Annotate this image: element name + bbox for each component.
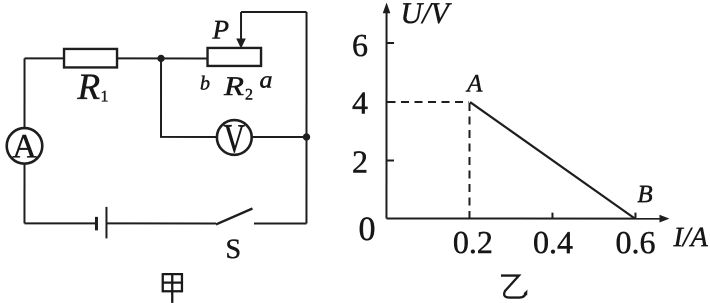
- switch contact wire: [254, 222, 307, 224]
- voltmeter V: [217, 120, 252, 155]
- svg-text:B: B: [637, 181, 652, 208]
- battery short plate: [95, 217, 98, 231]
- svg-text:S: S: [225, 234, 241, 265]
- y-axis U: [385, 11, 387, 218]
- svg-text:2: 2: [352, 143, 368, 179]
- resistor R1: [64, 49, 117, 68]
- wire voltmeter to right: [252, 136, 307, 138]
- rheostat R2: [208, 48, 262, 66]
- wire top-left horizontal: [25, 57, 64, 59]
- wire R1 to R2: [117, 57, 208, 59]
- svg-text:R: R: [77, 67, 101, 108]
- slider P arrow: [240, 12, 242, 40]
- svg-text:2: 2: [245, 86, 253, 103]
- wire slider top: [241, 11, 307, 13]
- caption yi: [501, 276, 526, 298]
- tick x 0.6: [634, 213, 636, 219]
- svg-text:0.6: 0.6: [615, 224, 655, 260]
- wire left vertical lower: [23, 164, 25, 224]
- battery long plate: [105, 207, 107, 239]
- svg-text:A: A: [465, 71, 483, 98]
- svg-text:A: A: [12, 128, 37, 165]
- dashed line horizontal to A: [388, 101, 470, 103]
- caption jia: [163, 273, 182, 303]
- svg-text:U/V: U/V: [401, 0, 453, 30]
- svg-text:a: a: [260, 67, 273, 93]
- x-axis I: [386, 218, 661, 220]
- ammeter A: [7, 128, 43, 164]
- svg-text:0.2: 0.2: [453, 224, 493, 260]
- tick x 0.4: [551, 213, 553, 219]
- svg-text:0: 0: [358, 211, 375, 248]
- svg-text:I/A: I/A: [672, 222, 708, 253]
- svg-text:P: P: [212, 14, 230, 44]
- svg-text:0.4: 0.4: [533, 224, 573, 260]
- wire bottom left: [24, 222, 96, 224]
- tick y 2: [386, 160, 394, 162]
- wire battery to switch: [106, 222, 215, 224]
- svg-text:b: b: [200, 72, 210, 94]
- tick y 4: [387, 101, 395, 103]
- wire left vertical upper: [24, 58, 26, 128]
- dashed line vertical from A: [468, 103, 470, 218]
- wire node to voltmeter vertical: [161, 58, 217, 137]
- tick y 6: [387, 42, 395, 44]
- svg-text:6: 6: [352, 27, 368, 63]
- node junction left: [157, 55, 164, 62]
- svg-text:V: V: [224, 115, 246, 161]
- wire right vertical: [305, 12, 307, 223]
- svg-text:R: R: [223, 71, 245, 101]
- line A to B: [470, 102, 635, 219]
- switch S blade: [216, 208, 253, 224]
- svg-text:1: 1: [101, 88, 109, 105]
- node junction right: [303, 133, 310, 140]
- svg-text:4: 4: [352, 84, 368, 120]
